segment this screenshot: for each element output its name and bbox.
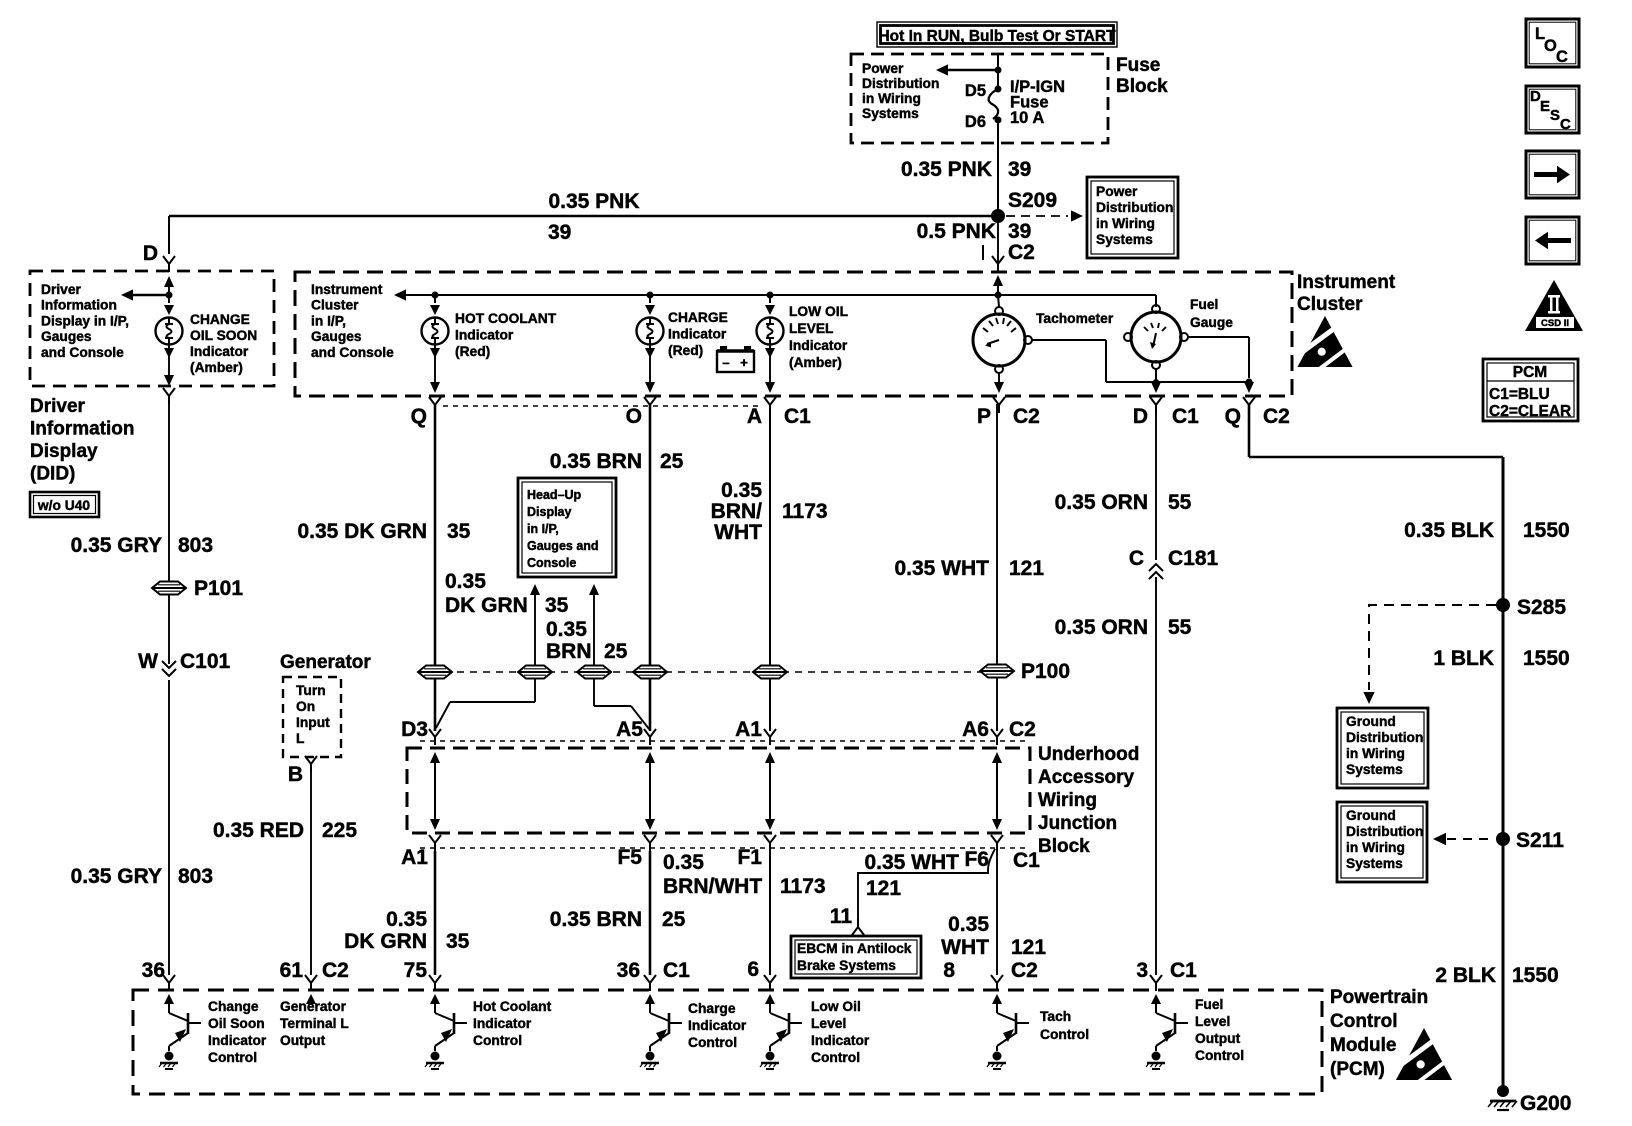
svg-text:A1: A1 xyxy=(735,718,762,741)
svg-text:Block: Block xyxy=(1116,76,1168,97)
svg-text:55: 55 xyxy=(1168,616,1192,639)
svg-text:Indicator: Indicator xyxy=(688,1018,747,1033)
ref box: Ground Distribution in Wiring Systems (2) xyxy=(1337,802,1427,882)
junction block exit forks xyxy=(429,835,1003,851)
svg-text:(Red): (Red) xyxy=(668,343,703,358)
svg-text:Display in I/P,: Display in I/P, xyxy=(41,313,129,328)
svg-text:Indicator: Indicator xyxy=(811,1033,870,1048)
label: 2 BLK 1550 xyxy=(1435,964,1558,987)
box: w/o U40 xyxy=(30,492,99,517)
label: 0.35 BRN/WHT 1173 xyxy=(711,479,828,544)
svg-text:C2=CLEAR: C2=CLEAR xyxy=(1489,403,1571,420)
label: I/P-IGN Fuse 10 A xyxy=(1010,78,1065,127)
wire: tach right to gauge ground bus xyxy=(1032,340,1249,382)
svg-text:Display: Display xyxy=(30,441,98,462)
label: 0.35 WHT 121 (lower) xyxy=(941,913,1046,959)
wire: F6 to PCM (tach) xyxy=(996,851,998,975)
svg-text:C1: C1 xyxy=(1172,405,1199,428)
svg-text:Generator: Generator xyxy=(280,999,347,1014)
label: 0.35 BRN/WHT 1173 (lower) xyxy=(663,851,826,898)
terminal 36 at PCM xyxy=(142,959,175,991)
svg-text:35: 35 xyxy=(446,930,470,953)
connector P101 pass-through xyxy=(152,577,243,600)
wire to hot coolant lamp xyxy=(430,295,440,315)
svg-text:Gauges and: Gauges and xyxy=(527,539,599,553)
pin D6 xyxy=(965,113,1002,131)
svg-text:Systems: Systems xyxy=(1346,762,1403,777)
fuse block dashed box xyxy=(851,54,1108,143)
svg-text:and Console: and Console xyxy=(311,345,394,360)
arrow left on cluster bus xyxy=(394,289,406,300)
label: Low Oil Level Indicator Control xyxy=(811,999,870,1065)
label: 0.35 GRY 803 (lower) xyxy=(71,865,213,888)
svg-text:C2: C2 xyxy=(1009,718,1036,741)
junction block entry labels xyxy=(401,718,1036,741)
svg-text:C1=BLU: C1=BLU xyxy=(1489,386,1550,403)
svg-text:C2: C2 xyxy=(1011,959,1038,982)
label: 0.35 ORN 55 (upper) xyxy=(1055,491,1192,514)
connector face line below cluster xyxy=(443,405,762,407)
svg-text:Level: Level xyxy=(811,1016,846,1031)
label: LOW OIL LEVEL Indicator (Amber) xyxy=(789,304,848,370)
svg-text:Fuse: Fuse xyxy=(1116,55,1160,76)
wire: F1 to PCM (low oil) xyxy=(769,851,771,975)
terminal 3 C1 at PCM xyxy=(1136,959,1197,991)
svg-text:0.35 GRY: 0.35 GRY xyxy=(71,534,162,557)
junction block exit labels xyxy=(401,846,1040,872)
svg-text:A5: A5 xyxy=(616,718,643,741)
svg-text:1173: 1173 xyxy=(780,875,826,898)
ESD symbol instrument cluster xyxy=(1294,316,1354,369)
svg-text:1 BLK: 1 BLK xyxy=(1433,647,1494,670)
ref dashed wire to ground distribution (S211) xyxy=(1433,833,1494,846)
svg-text:Low Oil: Low Oil xyxy=(811,999,861,1014)
svg-text:0.35 GRY: 0.35 GRY xyxy=(71,865,162,888)
wire: branch to power distribution arrow xyxy=(936,64,998,75)
wire: A1 to PCM (hot coolant) xyxy=(434,851,437,975)
junction block entry forks xyxy=(429,729,1003,745)
svg-text:D3: D3 xyxy=(401,718,428,741)
svg-text:Indicator: Indicator xyxy=(208,1033,267,1048)
ref box: Ground Distribution in Wiring Systems (1) xyxy=(1337,708,1428,788)
svg-text:D: D xyxy=(1133,405,1148,428)
text: Instrument Cluster in I/P, Gauges and Console xyxy=(311,282,394,360)
wire: 0.35 GRY 803 (DID output) xyxy=(168,404,170,581)
svg-text:C2: C2 xyxy=(1263,405,1290,428)
connector C101 xyxy=(138,650,230,676)
wire below hot coolant lamp xyxy=(430,344,440,393)
svg-text:Cluster: Cluster xyxy=(1297,294,1363,315)
svg-text:Control: Control xyxy=(473,1033,522,1048)
svg-text:L: L xyxy=(296,731,304,746)
lamp: CHANGE OIL SOON indicator xyxy=(156,318,183,345)
svg-text:0.35: 0.35 xyxy=(546,618,587,641)
junction block connector face (bottom) xyxy=(420,847,1030,849)
svg-text:Junction: Junction xyxy=(1038,813,1117,834)
label: 0.35 WHT (branch) xyxy=(864,851,959,874)
svg-text:1550: 1550 xyxy=(1512,964,1559,987)
svg-text:Control: Control xyxy=(811,1050,860,1065)
svg-text:Level: Level xyxy=(1195,1014,1230,1029)
wire: C181 to PCM (fuel) xyxy=(1155,577,1157,975)
splice S209 xyxy=(991,189,1057,223)
svg-text:Fuel: Fuel xyxy=(1195,997,1223,1012)
svg-text:F6: F6 xyxy=(964,848,989,871)
lamp: LOW OIL LEVEL indicator xyxy=(757,318,784,345)
wire: low oil A to A1 xyxy=(769,404,771,731)
icon box arrow left xyxy=(1526,217,1579,264)
svg-text:Hot Coolant: Hot Coolant xyxy=(473,999,552,1014)
label: 0.35 DK GRN (branch) xyxy=(445,570,569,617)
svg-text:Output: Output xyxy=(280,1033,326,1048)
svg-text:S285: S285 xyxy=(1517,596,1566,619)
svg-text:BRN/: BRN/ xyxy=(711,500,762,523)
svg-text:Q: Q xyxy=(1225,405,1241,428)
svg-text:Wiring: Wiring xyxy=(1038,790,1097,811)
svg-text:Module: Module xyxy=(1330,1035,1397,1056)
terminal fork below DID xyxy=(163,388,175,404)
junction block internal wire (tach) xyxy=(992,752,1002,830)
terminal 6 at PCM xyxy=(747,958,776,991)
label: 0.35 PNK 39 (vertical) xyxy=(901,158,1031,181)
wire: gauge ground exit down xyxy=(1244,382,1254,393)
wire below change oil lamp xyxy=(164,344,174,380)
entry arrow into cluster top xyxy=(993,275,1003,295)
PCM entry arrow (charge) xyxy=(645,994,655,1008)
HUD branch wire 2 (0.35 BRN 25) xyxy=(589,584,599,665)
junction dot DID xyxy=(166,292,173,299)
label: 39 (horizontal) xyxy=(548,221,571,244)
svg-text:Distribution: Distribution xyxy=(1346,824,1423,839)
junction dot hot coolant xyxy=(432,292,439,299)
label: CHARGE Indicator (Red) xyxy=(668,310,728,358)
terminal O (charge) xyxy=(626,397,656,428)
svg-text:Gauges: Gauges xyxy=(311,329,362,344)
junction block internal wire (charge) xyxy=(645,752,655,830)
ESD symbol PCM xyxy=(1393,1028,1454,1082)
svg-text:35: 35 xyxy=(545,594,569,617)
svg-text:F1: F1 xyxy=(737,846,762,869)
splice S211 xyxy=(1496,829,1564,852)
cluster feed bus xyxy=(402,295,1156,307)
svg-text:C1: C1 xyxy=(663,959,690,982)
label: 121 (branch) xyxy=(866,877,901,900)
svg-text:1173: 1173 xyxy=(782,500,828,523)
connector oval HUD1 xyxy=(518,666,552,679)
wire: charge O to A5 xyxy=(649,404,652,731)
svg-text:EBCM in Antilock: EBCM in Antilock xyxy=(797,941,912,956)
splice S285 xyxy=(1496,596,1566,619)
label: Generator Terminal L Output xyxy=(280,999,349,1048)
label: Tachometer xyxy=(1036,311,1114,326)
svg-text:S209: S209 xyxy=(1008,189,1057,212)
svg-text:Instrument: Instrument xyxy=(1297,272,1396,293)
wire: fuel gauge output down xyxy=(1151,382,1161,393)
svg-text:CHANGE: CHANGE xyxy=(190,312,250,327)
connector C181 xyxy=(1129,547,1219,579)
icon box DESC xyxy=(1526,86,1579,133)
svg-text:S: S xyxy=(1550,107,1560,124)
junction dot fuse branch xyxy=(995,67,1002,74)
svg-text:Indicator: Indicator xyxy=(473,1016,532,1031)
svg-text:25: 25 xyxy=(662,908,686,931)
svg-text:0.35 ORN: 0.35 ORN xyxy=(1055,616,1148,639)
wire: S209 down to instrument cluster xyxy=(997,222,999,262)
svg-text:Underhood: Underhood xyxy=(1038,744,1139,765)
ref dashed wire to ground distribution (S285) xyxy=(1363,605,1496,704)
svg-text:Control: Control xyxy=(1195,1048,1244,1063)
wire: tach output down xyxy=(994,373,1004,393)
svg-text:C2: C2 xyxy=(1013,405,1040,428)
PCM entry arrow (tach) xyxy=(992,994,1002,1008)
svg-text:Powertrain: Powertrain xyxy=(1330,987,1428,1008)
svg-text:0.5 PNK: 0.5 PNK xyxy=(917,220,996,243)
svg-text:Ground: Ground xyxy=(1346,714,1396,729)
svg-text:and Console: and Console xyxy=(41,345,124,360)
DID dashed box xyxy=(30,271,274,386)
svg-text:Hot In RUN, Bulb Test Or START: Hot In RUN, Bulb Test Or START xyxy=(878,28,1116,45)
terminal B fork xyxy=(288,756,317,786)
svg-text:61: 61 xyxy=(280,959,304,982)
svg-text:55: 55 xyxy=(1168,491,1192,514)
entry arrow into DID top xyxy=(164,276,174,295)
label: 1 BLK 1550 xyxy=(1433,647,1569,670)
svg-text:w/o U40: w/o U40 xyxy=(37,498,90,513)
wire: tach P to A6 xyxy=(996,404,998,731)
svg-text:0.35 PNK: 0.35 PNK xyxy=(901,158,992,181)
label: Instrument Cluster (title) xyxy=(1297,272,1396,315)
svg-text:3: 3 xyxy=(1136,959,1148,982)
svg-text:0.35: 0.35 xyxy=(948,913,989,936)
svg-text:0.35: 0.35 xyxy=(721,479,762,502)
wire below charge lamp xyxy=(645,344,655,393)
svg-text:Ground: Ground xyxy=(1346,808,1396,823)
ground G200 xyxy=(1488,1085,1571,1115)
transistor: change oil soon driver xyxy=(159,1008,201,1069)
svg-text:C101: C101 xyxy=(180,650,231,673)
svg-text:CSD II: CSD II xyxy=(1541,318,1569,329)
svg-text:0.35 RED: 0.35 RED xyxy=(213,819,304,842)
transistor: fuel level driver xyxy=(1146,1008,1188,1069)
wire: P101 to C101 xyxy=(168,595,170,664)
HUD branch wire 1 (0.35 DK GRN 35) xyxy=(530,584,540,665)
svg-text:Indicator: Indicator xyxy=(455,328,514,343)
svg-text:C2: C2 xyxy=(1008,241,1035,264)
svg-text:Output: Output xyxy=(1195,1031,1241,1046)
pin D5 xyxy=(965,82,1002,100)
svg-text:Driver: Driver xyxy=(30,396,86,417)
terminal Q C2 (gauge ground) xyxy=(1225,397,1290,428)
wire to change oil lamp xyxy=(164,295,174,315)
svg-text:in Wiring: in Wiring xyxy=(1346,840,1405,855)
battery symbol xyxy=(717,346,754,372)
svg-text:+: + xyxy=(740,355,748,370)
title box: Hot In RUN, Bulb Test Or START xyxy=(877,22,1117,47)
svg-text:Distribution: Distribution xyxy=(1346,730,1423,745)
junction dot tach feed xyxy=(995,292,1002,299)
label: Generator (title) xyxy=(280,652,371,673)
terminal fork C2 into cluster xyxy=(992,256,1004,272)
label: 0.35 BRN 25 (charge upper) xyxy=(550,450,684,473)
svg-text:F5: F5 xyxy=(617,846,642,869)
svg-text:36: 36 xyxy=(142,959,165,982)
wire: HUD2 lower joins A5 xyxy=(594,679,649,729)
connector oval low oil xyxy=(753,666,787,679)
fuse F: I/P-IGN Fuse 10 A symbol xyxy=(989,89,999,119)
svg-text:Control: Control xyxy=(1330,1011,1398,1032)
svg-text:Change: Change xyxy=(208,999,259,1014)
svg-text:Distribution: Distribution xyxy=(862,76,939,91)
svg-text:Distribution: Distribution xyxy=(1096,200,1173,215)
svg-text:0.35 PNK: 0.35 PNK xyxy=(548,190,639,213)
ref dashed arrow to power distribution box xyxy=(1006,210,1083,221)
wire: fuse output to S209 xyxy=(997,120,999,211)
label: Powertrain Control Module (PCM) xyxy=(1330,987,1428,1080)
branch wire to EBCM (0.35 WHT 121) xyxy=(852,849,995,935)
svg-text:C181: C181 xyxy=(1168,547,1219,570)
wire: F5 to PCM (charge) xyxy=(649,851,652,975)
svg-text:121: 121 xyxy=(1009,557,1044,580)
svg-text:D6: D6 xyxy=(965,113,986,131)
svg-text:P: P xyxy=(977,405,991,428)
svg-text:Power: Power xyxy=(862,61,904,76)
svg-text:Gauge: Gauge xyxy=(1190,315,1233,330)
svg-text:(DID): (DID) xyxy=(30,464,75,485)
generator dashed box xyxy=(283,677,341,757)
wire below low oil lamp xyxy=(765,344,775,393)
transistor: low oil driver xyxy=(760,1008,802,1069)
PCM entry arrow (low oil) xyxy=(765,994,775,1008)
label: Underhood Accessory Wiring Junction Block xyxy=(1038,744,1139,857)
label: Fuel Level Output Control xyxy=(1195,997,1244,1063)
svg-text:C: C xyxy=(1129,547,1144,570)
text: Power Distribution in Wiring Systems (fuse block) xyxy=(862,61,939,121)
svg-text:0.35: 0.35 xyxy=(663,851,704,874)
svg-text:Cluster: Cluster xyxy=(311,298,359,313)
label: 0.5 PNK 39 C2 xyxy=(917,220,1035,264)
svg-text:LEVEL: LEVEL xyxy=(789,321,833,336)
svg-text:Accessory: Accessory xyxy=(1038,767,1135,788)
svg-text:35: 35 xyxy=(447,520,471,543)
svg-text:Fuel: Fuel xyxy=(1190,297,1218,312)
label: Charge Indicator Control xyxy=(688,1001,747,1050)
svg-text:Tach: Tach xyxy=(1040,1009,1071,1024)
svg-text:A: A xyxy=(747,405,762,428)
svg-text:Indicator: Indicator xyxy=(668,327,727,342)
svg-text:Head–Up: Head–Up xyxy=(527,488,582,502)
label: Fuel Gauge xyxy=(1190,297,1233,330)
PCM entry arrow (change oil) xyxy=(164,994,174,1008)
fuel gauge xyxy=(1124,305,1188,369)
svg-text:O: O xyxy=(626,405,642,428)
terminal D at DID xyxy=(143,242,158,265)
svg-text:in I/P,: in I/P, xyxy=(527,522,559,536)
svg-text:C1: C1 xyxy=(784,405,811,428)
label: 0.35 GRY 803 (upper) xyxy=(71,534,213,557)
svg-text:D: D xyxy=(143,242,158,265)
svg-text:36: 36 xyxy=(617,959,640,982)
terminal 61 C2 at PCM xyxy=(280,959,349,991)
svg-text:LOW OIL: LOW OIL xyxy=(789,304,848,319)
terminal A C1 (low oil) xyxy=(747,397,811,428)
junction block internal wire (hot coolant) xyxy=(430,752,440,830)
svg-text:0.35: 0.35 xyxy=(386,908,427,931)
svg-text:Control: Control xyxy=(1040,1027,1089,1042)
svg-text:Turn: Turn xyxy=(296,683,326,698)
svg-text:Generator: Generator xyxy=(280,652,371,673)
wire to charge lamp xyxy=(645,295,655,315)
svg-text:25: 25 xyxy=(604,640,628,663)
svg-text:BRN: BRN xyxy=(546,640,592,663)
wire: hot coolant Q to D3 xyxy=(434,404,437,731)
svg-text:CHARGE: CHARGE xyxy=(668,310,728,325)
svg-text:P100: P100 xyxy=(1021,660,1070,683)
svg-text:in Wiring: in Wiring xyxy=(862,91,921,106)
svg-text:Oil Soon: Oil Soon xyxy=(208,1016,265,1031)
svg-text:1550: 1550 xyxy=(1523,519,1570,542)
label: Change Oil Soon Indicator Control xyxy=(208,999,267,1065)
wire to low oil lamp xyxy=(765,295,775,315)
icon warning triangle CSD II xyxy=(1525,280,1583,331)
ref box: Power Distribution in Wiring Systems xyxy=(1087,177,1178,258)
terminal Q (hot coolant) xyxy=(411,397,441,428)
label: 0.35 BRN 25 (lower) xyxy=(550,908,686,931)
svg-text:0.35 BLK: 0.35 BLK xyxy=(1404,519,1494,542)
wire: fuel D to C181 xyxy=(1155,404,1157,560)
svg-text:Input: Input xyxy=(296,715,330,730)
label: 0.35 WHT 121 xyxy=(894,557,1044,580)
svg-text:DK GRN: DK GRN xyxy=(344,930,427,953)
svg-text:S211: S211 xyxy=(1516,829,1564,852)
svg-text:(PCM): (PCM) xyxy=(1330,1059,1385,1080)
svg-text:225: 225 xyxy=(322,819,357,842)
svg-text:Control: Control xyxy=(688,1035,737,1050)
svg-text:PCM: PCM xyxy=(1513,364,1547,381)
label: Fuse Block xyxy=(1116,55,1168,97)
svg-text:C: C xyxy=(1560,116,1571,133)
svg-text:Gauges: Gauges xyxy=(41,329,92,344)
svg-text:75: 75 xyxy=(404,959,428,982)
svg-text:On: On xyxy=(296,699,315,714)
svg-text:D5: D5 xyxy=(965,82,986,100)
svg-text:B: B xyxy=(288,763,303,786)
svg-text:121: 121 xyxy=(1011,936,1046,959)
svg-text:C2: C2 xyxy=(322,959,349,982)
text: Driver Information Display (DID) xyxy=(30,396,135,485)
svg-text:WHT: WHT xyxy=(714,521,762,544)
svg-text:Power: Power xyxy=(1096,184,1138,199)
transistor: tach driver xyxy=(987,1008,1029,1069)
terminal 75 at PCM xyxy=(404,959,441,991)
connector P100 xyxy=(980,660,1070,683)
lamp: HOT COOLANT indicator xyxy=(422,318,449,345)
label: 0.35 DK GRN 35 (upper) xyxy=(297,520,470,543)
svg-text:0.35 DK GRN: 0.35 DK GRN xyxy=(297,520,427,543)
wire: fuse block vertical (I/P-IGN feed) xyxy=(997,54,999,89)
label: 0.35 RED 225 xyxy=(213,819,357,842)
junction block connector face (top) xyxy=(420,740,1030,742)
svg-text:in I/P,: in I/P, xyxy=(311,313,346,328)
svg-text:803: 803 xyxy=(178,534,213,557)
PCM entry arrow (generator input) xyxy=(306,994,316,1005)
terminal 8 C2 at PCM xyxy=(943,959,1038,991)
svg-text:0.35 WHT: 0.35 WHT xyxy=(894,557,989,580)
ref box: EBCM in Antilock Brake Systems xyxy=(791,936,921,978)
PCM entry arrow (hot coolant) xyxy=(430,994,440,1008)
transistor: hot coolant driver xyxy=(425,1008,467,1069)
terminal 11 (EBCM) xyxy=(830,905,853,928)
svg-text:in Wiring: in Wiring xyxy=(1096,216,1155,231)
